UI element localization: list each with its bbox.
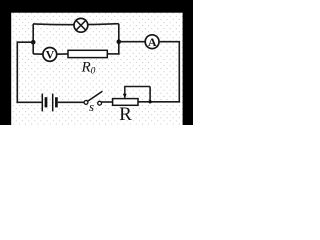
ammeter A [145, 35, 159, 49]
wire: voltmeter to resistor R0 [57, 53, 68, 55]
lamp L1 (circle with cross) [74, 18, 88, 32]
wire: outer right vertical [178, 42, 180, 103]
wire: right junction to ammeter [119, 41, 146, 43]
black border bar left [0, 12, 11, 125]
wire: to voltmeter [33, 53, 43, 55]
svg-text:V: V [46, 48, 55, 62]
wire: drop from left junction to voltmeter branch [32, 42, 34, 54]
paper background with halftone dots [0, 0, 193, 125]
svg-text:R: R [119, 104, 132, 125]
node: right junction dot [117, 39, 122, 44]
wire: ammeter to right vertical [159, 41, 180, 43]
svg-text:A: A [148, 35, 157, 49]
node: left junction dot [31, 40, 36, 45]
black border bar top [0, 0, 193, 13]
wire: right riser of lamp branch [118, 24, 120, 42]
wire: riser from R0 lead to right junction [118, 42, 120, 55]
switch S (open) [84, 91, 102, 105]
resistor R0 (box) [68, 50, 107, 57]
node: rheostat wiper junction dot [148, 100, 151, 103]
rheostat R (box) [113, 99, 138, 106]
wire: bottom right horizontal to rheostat [138, 101, 180, 103]
wire: switch to rheostat [101, 101, 112, 103]
wire: resistor R0 right lead [107, 53, 119, 55]
wire: battery to switch [58, 101, 84, 103]
svg-text:s: s [89, 99, 94, 114]
rheostat wiper arrow [123, 87, 150, 102]
wire: top lamp branch (horizontal) [33, 24, 119, 25]
wire: bottom-left horizontal to battery [17, 101, 42, 103]
wire: outer left vertical [16, 41, 18, 103]
voltmeter V [43, 48, 57, 62]
battery B (two cells) [42, 94, 56, 112]
wire: left arm from junction to outer left wire [17, 41, 33, 43]
wire: left riser of lamp branch [32, 24, 34, 42]
black border bar right [183, 12, 193, 125]
